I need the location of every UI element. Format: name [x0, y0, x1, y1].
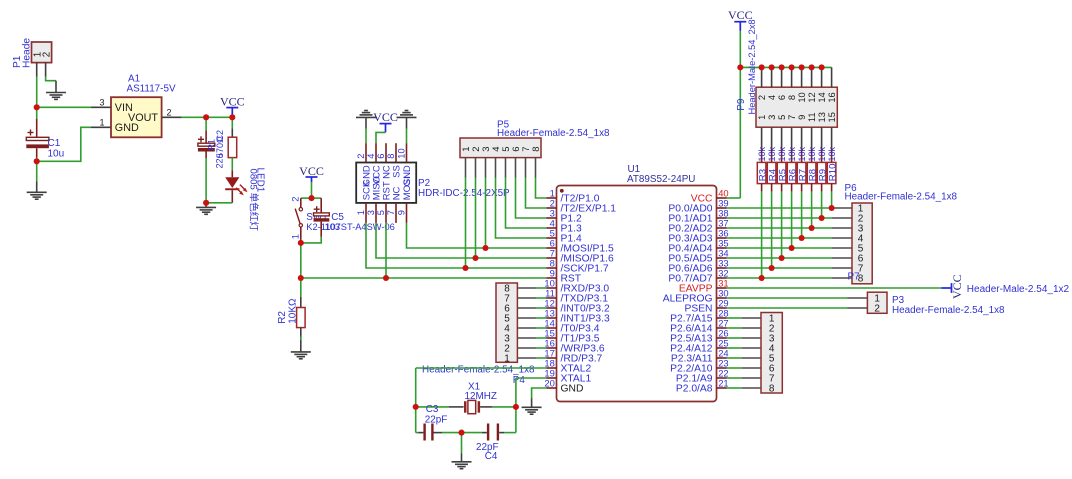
- svg-text:7: 7: [386, 210, 396, 215]
- svg-text:1: 1: [504, 353, 510, 364]
- connector port2 header box: [761, 313, 782, 394]
- regulator U A1 box: [111, 97, 162, 137]
- ground above P2 pin2 (inverted): [356, 111, 376, 118]
- svg-text:10k: 10k: [777, 146, 787, 161]
- wire bottom node to RST node: [300, 243, 302, 278]
- capacitor C5: [314, 198, 330, 237]
- connector P2 box: [356, 163, 416, 203]
- wire P5 pin7 to U1 pin2: [526, 178, 547, 209]
- wire XTAL1 row: [516, 377, 547, 379]
- wire RST row: [301, 277, 547, 279]
- svg-text:Header-Male-2.54_2x8: Header-Male-2.54_2x8: [747, 19, 757, 114]
- wire SW1 to bottom node: [300, 240, 302, 243]
- resistor R4: [767, 148, 776, 192]
- power flag VCC at regulator output: [231, 108, 233, 118]
- capacitor C2: [198, 130, 215, 158]
- svg-text:10k: 10k: [827, 146, 837, 161]
- svg-text:P9: P9: [736, 98, 747, 111]
- power flag VCC rotated at EAVPP: [941, 283, 951, 293]
- wire P5 pin2 to MISO row: [475, 178, 477, 259]
- switch SW1: [295, 198, 302, 239]
- wire VCC bus top: [740, 66, 831, 68]
- node junction C2/LED/ground: [205, 203, 207, 208]
- wire VCC vertical to U1 pin40: [739, 31, 741, 198]
- svg-text:12: 12: [807, 92, 817, 102]
- svg-text:103: 103: [325, 222, 341, 232]
- svg-text:3: 3: [366, 210, 376, 215]
- svg-text:1: 1: [99, 117, 104, 127]
- wire P2 MOSI to U1: [407, 223, 547, 248]
- svg-text:1: 1: [291, 234, 301, 239]
- wire C1 to ground: [36, 158, 38, 162]
- wire PSEN row: [727, 307, 848, 309]
- svg-text:Heade: Heade: [21, 38, 32, 68]
- connector P1 box: [32, 42, 52, 63]
- wire P5 pin1 to SCK row: [465, 178, 467, 269]
- svg-text:15: 15: [827, 112, 837, 122]
- svg-text:8: 8: [386, 154, 396, 159]
- ground under crystal caps: [452, 462, 472, 469]
- wire center node to C4: [462, 432, 483, 434]
- wire P5 pin4 to U1 pin5: [496, 178, 547, 239]
- resistor R10: [827, 148, 836, 192]
- wire VIN node to A1 VIN pin: [37, 106, 91, 108]
- wire junction to C1: [36, 107, 38, 119]
- wire C3 to center node: [433, 432, 442, 434]
- P9 top pin numbers even: [757, 92, 837, 102]
- wire VCC to P2 pin4: [376, 132, 386, 143]
- svg-text:2: 2: [291, 197, 301, 202]
- P2 upper pin names GND VCC NC SS GND: [362, 165, 414, 186]
- svg-text:8: 8: [787, 95, 797, 100]
- P1 pin 2 stub: [45, 62, 47, 76]
- P4 pin numbers 8-1: [504, 283, 510, 364]
- svg-text:8: 8: [531, 147, 542, 152]
- P9 top pin stubs: [762, 67, 832, 87]
- svg-text:2: 2: [167, 107, 172, 117]
- resistor R7: [797, 148, 806, 192]
- wire XTAL2 row: [416, 367, 547, 369]
- svg-text:22pF: 22pF: [425, 415, 448, 426]
- svg-text:R2: R2: [277, 311, 288, 324]
- svg-text:P2.0/A8: P2.0/A8: [676, 383, 713, 394]
- wire crystal row right: [480, 406, 492, 408]
- svg-text:Header-Female-2.54_1x8: Header-Female-2.54_1x8: [845, 192, 958, 203]
- U1 right pin numbers 40-21: [718, 187, 728, 388]
- svg-text:6: 6: [376, 154, 386, 159]
- svg-text:13: 13: [817, 112, 827, 122]
- svg-text:9: 9: [397, 210, 407, 215]
- svg-text:10k: 10k: [757, 146, 767, 161]
- wire node to SW1: [301, 197, 312, 199]
- wire P5 pin5 to U1 pin4: [506, 178, 547, 229]
- svg-text:9: 9: [797, 115, 807, 120]
- svg-text:VCC: VCC: [950, 274, 964, 299]
- wire R1 to LED1: [231, 158, 233, 171]
- P2 bottom pin stubs: [366, 203, 407, 223]
- P9 bottom pin stubs: [762, 127, 832, 147]
- wire U1 GND pin to ground: [532, 388, 547, 398]
- svg-text:3: 3: [767, 115, 777, 120]
- svg-text:14: 14: [817, 92, 827, 102]
- P6 pin numbers 1-8: [858, 203, 864, 284]
- svg-text:P4: P4: [513, 375, 526, 386]
- svg-text:10k: 10k: [797, 146, 807, 161]
- svg-text:GND: GND: [561, 383, 584, 394]
- svg-text:VCC: VCC: [373, 110, 398, 124]
- svg-text:3: 3: [99, 97, 104, 107]
- U1 right pin stubs: [717, 198, 727, 388]
- svg-text:P7: P7: [848, 271, 860, 282]
- svg-text:10: 10: [797, 92, 807, 102]
- svg-text:R10: R10: [828, 164, 839, 182]
- P2 lower pin names SCK MISO RST NC MOSI: [362, 176, 414, 200]
- svg-text:Header-Female-2.54_1x8: Header-Female-2.54_1x8: [892, 305, 1005, 316]
- svg-text:2: 2: [757, 95, 767, 100]
- wire C3 row left: [416, 432, 419, 434]
- wire U1 pin40 to VCC vertical: [727, 197, 741, 199]
- wire C5 to bottom node: [301, 237, 321, 243]
- ground above P2 pin10 (inverted): [397, 111, 417, 118]
- resistor R1: [228, 137, 237, 157]
- wire R8 to P0 row: [811, 192, 813, 228]
- svg-text:10u: 10u: [48, 148, 65, 159]
- power flag VCC at P2: [385, 124, 387, 133]
- resistor R8: [807, 148, 816, 192]
- svg-text:5: 5: [376, 210, 386, 215]
- power flag VCC top: [739, 22, 741, 31]
- wire left vertical XTAL2: [415, 368, 417, 433]
- wire R9 to P0 row: [821, 192, 823, 218]
- svg-text:10KΩ: 10KΩ: [287, 298, 298, 324]
- svg-text:GND: GND: [115, 122, 139, 134]
- svg-text:C3: C3: [426, 404, 439, 415]
- crystal X1: [464, 400, 480, 413]
- wire R3 to P0 row: [761, 192, 763, 278]
- resistor R6: [787, 148, 796, 192]
- capacitor C4: [487, 424, 499, 441]
- wire crystal row left: [416, 406, 449, 408]
- wire R4 to P0 row: [771, 192, 773, 268]
- connector P5 box: [460, 138, 541, 158]
- wire LED1 return: [206, 202, 232, 204]
- wire center node to ground: [461, 433, 463, 454]
- P2 top pin numbers 2 4 6 8 10: [356, 148, 407, 158]
- svg-text:0805 单色红灯: 0805 单色红灯: [248, 169, 260, 232]
- svg-text:6: 6: [777, 95, 787, 100]
- svg-text:2: 2: [356, 154, 366, 159]
- svg-text:1: 1: [757, 115, 767, 120]
- svg-text:AS1117-5V: AS1117-5V: [127, 84, 176, 95]
- LED LED1: [225, 177, 247, 203]
- wire VOUT to VCC: [182, 116, 233, 118]
- P5 pin stubs: [466, 158, 536, 178]
- wire VCC to C2: [205, 117, 207, 130]
- wire P5 pin6 to U1 pin3: [516, 178, 547, 219]
- power flag VCC at switch: [311, 177, 313, 182]
- P5 pin numbers 1-8: [461, 147, 542, 152]
- wire P5 pin3 to MOSI row: [485, 178, 487, 249]
- ground under U1 GND: [522, 407, 542, 414]
- P4 pin stubs and wires to U1: [517, 288, 546, 358]
- svg-text:2: 2: [41, 52, 52, 57]
- svg-text:16: 16: [827, 92, 837, 102]
- capacitor C1: [26, 119, 49, 158]
- wire P2 MISO to U1: [376, 223, 547, 258]
- svg-text:1: 1: [356, 210, 366, 215]
- wire RST node to R2: [300, 278, 302, 297]
- svg-text:2: 2: [874, 303, 880, 314]
- P2 top pin stubs: [366, 143, 407, 162]
- wire R5 to P0 row: [781, 192, 783, 258]
- svg-text:11: 11: [807, 112, 817, 122]
- port2 header pin numbers 1-8: [769, 313, 775, 394]
- wire C2 to ground node: [205, 158, 207, 203]
- svg-text:10k: 10k: [807, 146, 817, 161]
- wire R7 to P0 row: [801, 192, 803, 238]
- svg-text:4: 4: [366, 154, 376, 159]
- resistor R5: [777, 148, 786, 192]
- svg-text:10k: 10k: [767, 146, 777, 161]
- wires P2.7-P2.0 rows: [727, 318, 762, 388]
- U1 left pin numbers 1-20: [544, 187, 554, 388]
- IC U1 box: [557, 186, 717, 402]
- A1 pin 3 VIN stub: [91, 106, 111, 108]
- svg-text:AT89S52-24PU: AT89S52-24PU: [627, 174, 695, 185]
- connector P3 box: [867, 292, 887, 313]
- resistor R3: [757, 148, 766, 192]
- svg-text:10: 10: [397, 148, 407, 158]
- wire EAVPP row: [727, 287, 942, 289]
- svg-text:Header-Female-2.54_1x8: Header-Female-2.54_1x8: [422, 364, 535, 375]
- svg-text:12MHZ: 12MHZ: [465, 391, 497, 402]
- junctions on VCC bus: [0, 0, 1, 1]
- resistor R9: [817, 148, 826, 192]
- U1 right pin names: [663, 193, 713, 394]
- svg-text:K2-1107ST-A4SW-06: K2-1107ST-A4SW-06: [306, 222, 395, 232]
- P2 bottom pin numbers 1 3 5 7 9: [356, 210, 407, 215]
- wire right vertical XTAL1: [515, 378, 517, 433]
- svg-text:Header-Male-2.54_1x2: Header-Male-2.54_1x2: [967, 284, 1070, 295]
- ground under P1: [46, 93, 66, 100]
- svg-text:5: 5: [777, 115, 787, 120]
- ground under R2: [291, 352, 311, 359]
- svg-text:VCC: VCC: [220, 95, 245, 109]
- svg-text:GND: GND: [402, 165, 413, 186]
- svg-text:NC: NC: [392, 186, 403, 200]
- wire ALEPROG row: [727, 297, 848, 299]
- svg-text:Header-Female-2.54_1x8: Header-Female-2.54_1x8: [497, 128, 610, 139]
- wire P2 RST down: [385, 223, 387, 278]
- wire R10 to P0 row: [831, 192, 833, 208]
- wire VCC to R1: [231, 117, 233, 128]
- U1 pin1 indicator dot: [560, 189, 564, 193]
- resistor R2: [297, 308, 306, 328]
- U1 left pin names: [561, 193, 617, 394]
- wire P2 pin2 to ground: [365, 117, 367, 128]
- connector P4 box: [496, 283, 517, 362]
- svg-text:C4: C4: [485, 451, 498, 462]
- svg-text:22u: 22u: [215, 153, 225, 168]
- wires P0.0-P0.7 rows: [727, 208, 853, 278]
- wire C4 to right vertical: [499, 432, 504, 434]
- A1 pin 1 GND stub: [91, 126, 111, 128]
- svg-text:VCC: VCC: [299, 164, 324, 178]
- wire P1 pin2 to ground: [46, 77, 56, 81]
- svg-text:7: 7: [787, 115, 797, 120]
- wire R2 to ground: [300, 328, 302, 352]
- wire P2 SCK to U1: [366, 223, 547, 268]
- wire P1 pin1 to node VIN: [36, 77, 38, 108]
- svg-text:10k: 10k: [817, 146, 827, 161]
- wire R6 to P0 row: [791, 192, 793, 248]
- capacitor C3: [423, 424, 433, 441]
- wire P2 pin10 to ground: [406, 117, 408, 128]
- connector P6 box: [852, 203, 872, 284]
- wire P5 pin8 to U1 pin1: [536, 178, 547, 199]
- svg-text:10k: 10k: [787, 146, 797, 161]
- P9 bottom pin numbers odd: [757, 112, 837, 122]
- ground under C2: [196, 207, 216, 214]
- P1 pin 1 stub: [36, 62, 38, 76]
- A1 pin 2 VOUT stub: [162, 116, 182, 118]
- svg-text:SS: SS: [392, 165, 403, 178]
- wire VCC to switch node: [311, 182, 313, 198]
- wire node to C5: [312, 197, 322, 199]
- svg-text:8: 8: [769, 383, 775, 394]
- svg-text:21: 21: [718, 377, 728, 388]
- svg-text:4: 4: [767, 95, 777, 100]
- U1 left pin stubs: [547, 198, 557, 388]
- wire C1 junction to A1 GND pin: [37, 127, 91, 161]
- connector P9 box: [756, 87, 837, 127]
- svg-text:20: 20: [544, 377, 554, 388]
- ground under C1: [27, 192, 47, 199]
